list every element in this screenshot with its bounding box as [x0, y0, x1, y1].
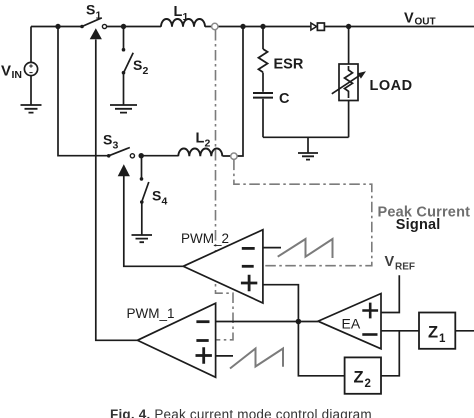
label L2 [196, 131, 211, 150]
comparator PWM_2 [183, 230, 263, 303]
resistor ESR [259, 49, 268, 72]
wire S1 to L1 [104, 26, 161, 28]
svg-text:C: C [279, 91, 290, 107]
wire Vin top riser [30, 27, 32, 63]
wire L2 to riser up to top bus [223, 27, 244, 157]
svg-text:1: 1 [96, 10, 102, 22]
wire top bus from Vin to S1 [31, 26, 82, 28]
svg-text:L: L [174, 4, 183, 20]
current sense tap node on L2 output [231, 153, 237, 159]
svg-text:Z: Z [428, 323, 438, 341]
svg-text:EA: EA [342, 316, 361, 332]
wire PWM_1 ramp input [216, 355, 233, 357]
ground under S4 [132, 235, 153, 242]
junction node on top bus at x58 [55, 24, 60, 29]
control arrow to S3 from PWM_2 [118, 164, 130, 176]
junction node S1-S2 [121, 24, 126, 29]
label VOUT [404, 11, 436, 28]
label S3 [103, 132, 119, 152]
capacitor C [253, 93, 273, 98]
label L1 [174, 4, 189, 23]
wire PWM_2 output up to S3 arrow [124, 176, 183, 267]
block Z2 [345, 357, 381, 393]
junction node LOAD branch [346, 24, 351, 29]
label S2 [133, 57, 149, 77]
svg-text:S: S [152, 188, 161, 204]
sawtooth ramp for PWM_2 [278, 239, 333, 258]
wire L1 to diode [205, 26, 311, 28]
svg-text:V: V [385, 254, 395, 270]
svg-text:2: 2 [365, 378, 371, 390]
svg-text:Signal: Signal [396, 217, 441, 233]
svg-text:V: V [1, 63, 11, 80]
svg-text:Fig. 4. Peak current mode con: Fig. 4. Peak current mode control diagra… [110, 407, 372, 418]
svg-text:1: 1 [183, 11, 189, 23]
svg-text:1: 1 [439, 333, 446, 345]
wire ESR riser [262, 27, 264, 50]
svg-text:3: 3 [113, 140, 119, 152]
ground under VIN [21, 105, 42, 113]
switch S3 [107, 148, 135, 158]
wire left branch vertical to S3 row [58, 27, 109, 156]
wire S4 lower stem [141, 203, 143, 235]
variable resistor LOAD [332, 64, 366, 101]
label S4 [152, 188, 168, 208]
current sense tap node on L1 output [212, 23, 218, 29]
svg-text:2: 2 [205, 137, 211, 149]
wire ground stem of output filter [307, 137, 309, 153]
wire Z1 output to right edge [455, 330, 474, 332]
svg-text:REF: REF [395, 262, 415, 273]
inductor L1 [161, 19, 205, 27]
wire Z2 right side up to EA minus line [381, 331, 399, 376]
wire S3 node to L2 [141, 155, 178, 157]
switch S2 [122, 48, 134, 75]
switch S1 [80, 18, 106, 29]
wire EA output node down to Z2 [298, 322, 344, 376]
wire EA output line to PWM_1 [216, 321, 318, 323]
wire LOAD top [348, 27, 350, 65]
junction node ESR branch [260, 24, 265, 29]
wire C to bottom rail [262, 99, 264, 138]
wire PWM_1 output up to S1 arrow [96, 40, 138, 341]
svg-text:2: 2 [143, 65, 149, 77]
wire bottom rail [263, 136, 349, 138]
junction node S3-S4 [139, 153, 144, 158]
error amplifier EA [318, 294, 381, 349]
svg-text:S: S [86, 2, 95, 18]
svg-text:IN: IN [12, 69, 23, 81]
wire PWM_2 ramp input [263, 247, 281, 249]
junction node L2 riser on top bus [240, 24, 245, 29]
svg-text:ESR: ESR [274, 57, 304, 73]
svg-text:LOAD: LOAD [370, 78, 413, 94]
svg-text:4: 4 [162, 196, 168, 208]
peak current dashed net from L2 to PWM_2 [234, 160, 372, 266]
wire S2 riser [123, 27, 125, 50]
wire S4 riser [141, 156, 143, 178]
sawtooth ramp for PWM_1 [230, 349, 283, 369]
comparator PWM_1 [137, 303, 215, 377]
svg-text:Z: Z [354, 368, 364, 386]
svg-text:OUT: OUT [415, 17, 436, 28]
wire EA minus input to Z1 [381, 330, 419, 332]
switch S4 [140, 177, 149, 204]
svg-text:PWM_1: PWM_1 [127, 306, 175, 321]
ground under S2 [110, 105, 137, 113]
label VIN [1, 63, 22, 82]
svg-text:V: V [404, 11, 414, 27]
junction node EA output [296, 319, 302, 325]
svg-text:L: L [196, 131, 205, 147]
label VREF [385, 254, 416, 273]
label S1 [86, 2, 102, 22]
control arrow to S1 from PWM_1 [90, 28, 102, 39]
svg-text:S: S [133, 57, 142, 73]
wire Vin lower stem [30, 75, 32, 105]
svg-text:PWM_2: PWM_2 [181, 231, 229, 246]
wire VREF to EA plus input [381, 275, 399, 312]
wire LOAD bottom [348, 101, 350, 138]
ground under output filter [298, 153, 318, 160]
inductor L2 [178, 149, 222, 157]
diode D1 [311, 23, 325, 30]
block Z1 [419, 313, 455, 349]
wire S2 lower stem [123, 73, 125, 105]
svg-text:S: S [103, 132, 112, 148]
peak current dashed net from L1 to PWM_1 [216, 30, 234, 340]
wire PWM_2 plus input to EA output node [263, 285, 299, 322]
wire ESR to C [262, 73, 264, 92]
voltage source VIN [24, 62, 37, 75]
wire diode to VOUT right edge [325, 26, 474, 28]
